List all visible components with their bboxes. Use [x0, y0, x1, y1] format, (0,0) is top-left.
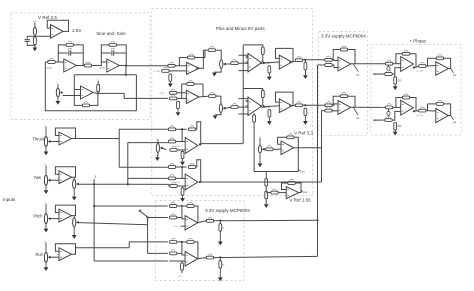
wire — [428, 103, 437, 105]
section box V Ref 2.5 and sine — [11, 13, 150, 120]
trimmer phase1 input — [387, 67, 390, 71]
wire R2 to U2 — [55, 61, 64, 63]
wire to node — [177, 205, 187, 207]
resistor R13 row A comp input — [231, 60, 238, 65]
resistor R5 int2 feedback — [109, 41, 116, 46]
op-amp U1 reference buffer — [51, 25, 64, 39]
node phase1 out — [451, 69, 457, 78]
wire thrust to mixer D — [119, 166, 168, 168]
wire R23 to comparator — [238, 106, 248, 108]
trimmer phase2 input — [387, 111, 390, 115]
resistor R52 vref165 feedback — [288, 179, 295, 184]
potentiometer RV yaw input — [44, 163, 50, 185]
op-amp U4 inverter — [81, 86, 94, 99]
resistor R33 supply2 input lower — [325, 107, 332, 112]
wire R41 to U15 — [393, 106, 401, 108]
wire to node — [176, 128, 187, 130]
svg-text:LM324: LM324 — [46, 68, 53, 70]
potentiometer RV4 row B level — [219, 104, 225, 113]
section box 3.3V supply MCP6004 lower — [155, 201, 244, 281]
wire mixer2 out run — [214, 256, 318, 257]
wire U25 output — [198, 221, 207, 223]
wire mixer2 feedback right — [194, 242, 198, 259]
wire vref33 to divider — [266, 171, 298, 173]
resistor R32 supply2 input upper — [325, 102, 332, 107]
wire thrust output — [72, 138, 120, 140]
svg-text:out: out — [453, 121, 457, 124]
svg-text:out: out — [301, 170, 305, 173]
pin circles U9 — [246, 100, 248, 107]
wire comp A pin 3 — [239, 70, 249, 72]
resistor R27 row B divider — [304, 108, 309, 115]
wire trimmer to R38 — [388, 71, 390, 73]
wire pitch wiper run — [79, 223, 148, 225]
potentiometer RV roll input — [44, 240, 50, 262]
wire res1 to trimmer — [388, 109, 390, 111]
wire U2 output — [76, 65, 84, 67]
wire to U23 plus — [177, 149, 185, 151]
svg-text:V Ref 1.65: V Ref 1.65 — [289, 198, 311, 203]
resistor R14 comp A feedback — [261, 47, 267, 54]
svg-text:V Ref 2.5: V Ref 2.5 — [38, 15, 57, 20]
wire RV4 wiper out — [226, 106, 231, 109]
wire -sine out — [98, 92, 124, 94]
wire — [428, 57, 437, 59]
op-amp U8 row B amp — [186, 90, 199, 103]
wire ref to U15 plus — [392, 111, 401, 120]
resistor R22 row B output — [209, 92, 216, 97]
resistor R39 phase1 ground leg — [394, 77, 402, 84]
wire to mixer2 ref input — [94, 260, 168, 262]
resistor R65 mixer1 in2 — [170, 214, 177, 219]
junction yaw branch junction — [127, 183, 129, 185]
resistor R9 row A feedback — [188, 54, 195, 59]
wire int2 feedback right — [117, 45, 127, 66]
wire supply2 feedback left — [333, 96, 340, 105]
resistor R19 row B input — [170, 95, 177, 100]
wire phase1 feedback left — [396, 54, 402, 64]
switch SW1 — [139, 210, 149, 219]
wire pot wiper to buffer — [51, 256, 59, 258]
resistor R37 phase1 coupling — [419, 62, 426, 67]
wire comp A pin 1 — [239, 54, 249, 56]
wire to RV3 — [216, 50, 222, 60]
wire roll to mixer2 in1 — [129, 241, 168, 243]
resistor R41 phase2 input — [385, 104, 392, 109]
junction mixer C node — [181, 128, 183, 130]
resistor R21 row B to ground — [177, 101, 182, 108]
resistor R47 vref33 input — [266, 146, 273, 151]
op-amp U25 mixer 1 — [185, 216, 198, 230]
op-amp U13 phase1 amp — [401, 57, 414, 72]
wire column 2 — [321, 111, 323, 182]
junction mixer D node — [181, 166, 183, 168]
resistor R1 divider lower — [34, 37, 39, 44]
wire stub — [394, 74, 396, 77]
resistor R35 phase1 input — [385, 60, 392, 65]
wire to ground — [34, 44, 36, 47]
wire to U11 plus — [332, 65, 338, 68]
wire vref33 feedback left — [278, 137, 287, 144]
junction rail junction — [125, 74, 127, 76]
wire yaw into in3 — [168, 184, 171, 186]
resistor R67 mixer1 load — [219, 224, 225, 231]
wire R14 down — [262, 54, 264, 63]
resistor R36 phase1 feedback — [402, 50, 409, 55]
wire stub — [177, 97, 179, 99]
wire supply2 feedback right — [348, 96, 355, 107]
wire R8 to U5 — [175, 65, 186, 67]
ground GND thrust pot — [44, 147, 49, 156]
resistor R4 coupling — [84, 62, 91, 67]
wire tap top — [253, 113, 255, 115]
wire to U25 minus — [182, 218, 185, 220]
wire tap down — [253, 122, 255, 171]
svg-text:(+1.7V): (+1.7V) — [417, 115, 424, 117]
wire mixer C output — [200, 144, 244, 146]
wire thrust split vertical — [118, 129, 120, 167]
wire int1 feedback right — [74, 45, 84, 66]
wire phase2 feedback right — [410, 98, 416, 112]
wire ref label lead — [373, 119, 385, 121]
wire R6 down — [97, 92, 99, 94]
wire stub — [219, 221, 221, 224]
svg-text:Plus and Minus 5V parts: Plus and Minus 5V parts — [216, 26, 266, 31]
resistor R55 mixer C in2 — [168, 138, 175, 143]
wire mixer1 feedback right — [194, 206, 198, 223]
wire stub — [182, 150, 184, 151]
resistor R31 supply1 feedback — [340, 46, 347, 51]
node vref165 out — [301, 190, 307, 194]
svg-text:LM324: LM324 — [99, 68, 106, 70]
wire R51 to U18 — [278, 192, 286, 194]
junction inverter out junction — [97, 92, 99, 94]
ground GND20 — [218, 231, 223, 245]
wire U4 input left vertical — [73, 75, 75, 106]
ground GND9 — [267, 117, 272, 125]
wire cap top lead — [26, 36, 28, 38]
wire RV8 wiper — [163, 148, 167, 150]
wire R18 to U8 — [177, 92, 186, 94]
wire comp B output — [264, 106, 269, 109]
wire vref33 to column — [298, 147, 321, 149]
wire into R2 — [45, 61, 48, 63]
wire yaw to mixer C in2 — [128, 142, 168, 144]
resistor R17 row A divider — [304, 63, 309, 70]
wire supply1 feedback left — [333, 50, 340, 60]
junction mixer1 node — [181, 205, 183, 207]
wire node down — [181, 206, 183, 219]
wire buffer feedback — [55, 128, 75, 139]
svg-text:+1.7v: +1.7v — [173, 226, 178, 228]
wire phase1 op2 feedback right — [444, 58, 451, 68]
junction comp B output junction — [263, 106, 265, 108]
op-amp U2 integrator 1 — [64, 59, 77, 72]
op-amp U24 mixer D — [185, 174, 198, 190]
wire phase2 op2 feedback right — [444, 104, 451, 116]
junction mixer2 out junction — [219, 256, 221, 258]
ground GND6 — [303, 70, 308, 79]
wire U15 output — [414, 110, 419, 113]
potentiometer RV thrust input — [44, 125, 50, 147]
ground GND8 — [213, 115, 218, 119]
wire comparator input bus — [242, 45, 244, 143]
resistor R53 mixer C in1 — [168, 126, 175, 131]
ground GND5 — [267, 73, 272, 80]
resistor R43 phase2 coupling — [419, 107, 426, 112]
resistor R54 mixer C feedback — [188, 126, 195, 131]
wire int1 feedback left — [58, 45, 66, 62]
op-amp U U20 buffer — [59, 171, 72, 184]
potentiometer RV1 divider upper — [33, 27, 36, 35]
resistor R49 vref165 upper — [265, 179, 270, 186]
op-amp U12 supply amp 2 — [338, 100, 351, 114]
wire comp B positive feedback — [243, 89, 263, 91]
resistor R40 phase1 op2 feedback — [436, 55, 443, 60]
wire vref33 down — [297, 148, 299, 172]
op-amp U15 phase2 amp — [401, 100, 414, 115]
wire to U26 minus — [182, 254, 185, 256]
wire R47 to U17 — [273, 148, 281, 150]
potentiometer RV8 mixer C trim — [156, 137, 162, 152]
wire to U12 minus — [332, 104, 338, 105]
svg-text:1: 1 — [95, 175, 97, 179]
ground GND2 — [56, 97, 61, 105]
wire U4 inverting input — [74, 89, 80, 91]
op-amp U23 mixer C — [185, 138, 198, 154]
ground GND14 — [264, 204, 269, 208]
resistor R69 mixer2 feedback — [187, 238, 194, 243]
junction mixer2 node — [181, 241, 183, 243]
op-amp U11 supply amp 1 — [338, 57, 351, 71]
junction phase2 junction — [413, 110, 415, 112]
wire to RV4 — [216, 96, 221, 104]
wire yaw pot top — [73, 177, 75, 179]
resistor R63 mixer1 in1 — [170, 202, 177, 207]
resistor R8 row A input — [168, 62, 175, 67]
wire switch to mixer1 — [148, 217, 168, 219]
wire stub — [394, 119, 396, 122]
wire stub — [169, 70, 171, 73]
wire vref33 feedback right — [294, 137, 298, 148]
resistor R50 vref165 lower — [265, 191, 270, 198]
resistor R30 supply1 input lower — [325, 61, 332, 66]
svg-text:+ Phase: + Phase — [409, 38, 426, 43]
wire buffer feedback — [55, 244, 75, 255]
resistor R11 row A to ground — [169, 74, 174, 81]
op-amp U5 row A amp — [187, 62, 200, 74]
junction mixer1 in1 junction — [93, 205, 95, 207]
potentiometer RV6 yaw gain — [73, 179, 79, 188]
wire to U3 input — [92, 62, 107, 66]
wire to C2 — [58, 52, 68, 54]
wire -sine to row B — [124, 93, 168, 98]
svg-text:+1.7v: +1.7v — [178, 276, 183, 278]
wire R43 to U16 — [426, 110, 436, 112]
wire RV8 ground — [156, 153, 159, 158]
wire buffer B output — [289, 104, 295, 106]
resistor R46 phase2 op2 feedback — [436, 100, 443, 105]
svg-text:(-1.7V): (-1.7V) — [154, 71, 161, 73]
inverter bubble U6 output bubble — [262, 62, 264, 64]
section box + Phase — [371, 45, 461, 135]
junction row B output junction — [304, 104, 306, 106]
node supply2 out — [353, 108, 359, 121]
junction mixer C out junction — [199, 143, 201, 145]
op-amp U U22 buffer — [59, 248, 72, 261]
wire comp B pin 3 — [239, 113, 249, 115]
wire res1 to trimmer — [388, 65, 390, 66]
ground GND roll pot — [44, 262, 49, 271]
wire U1 feedback loop — [47, 20, 68, 31]
wire roll up — [128, 242, 130, 248]
wire RV2 wiper to U4 — [63, 95, 81, 97]
resistor R56 mixer C in3 — [170, 146, 177, 151]
wire comp B to buffer — [264, 106, 279, 107]
wire node down — [181, 167, 183, 178]
wire sine output to row A — [126, 65, 168, 67]
ground GND4 — [212, 73, 217, 77]
ground GND yaw pot — [44, 185, 49, 194]
svg-text:out: out — [356, 74, 360, 77]
wire R72 bottom lead — [181, 270, 183, 273]
wire buffer feedback — [55, 205, 75, 216]
wire row A to supply — [303, 59, 325, 61]
junction mixer1 out junction — [219, 219, 221, 221]
wire pitch pot top — [73, 216, 75, 218]
wire phase2 feedback left — [396, 98, 402, 108]
wire to U1 inverting input — [27, 35, 50, 37]
wire rail right vertical — [135, 75, 137, 111]
wire to R51 — [266, 192, 271, 194]
wire RV3 to ground — [214, 68, 221, 72]
wire R37 to U14 — [426, 65, 436, 68]
resistor R70 mixer2 in2 — [170, 250, 177, 255]
wire bottom feedback right — [90, 93, 98, 105]
wire R72 top lead — [181, 261, 183, 263]
junction mixer D out junction — [199, 181, 201, 183]
resistor R3 int1 feedback — [66, 41, 73, 46]
wire phase2 op2 feedback left — [427, 104, 429, 111]
wire R35 to U13 — [393, 63, 401, 65]
ground GND16 pitch — [72, 227, 77, 239]
wire to U26 plus — [169, 260, 185, 262]
wire cap bottom lead — [27, 42, 35, 45]
wire pot wiper to buffer — [51, 179, 59, 181]
wire stub — [304, 60, 306, 63]
wire U8 output — [199, 95, 209, 98]
wire to U24 plus — [177, 185, 185, 187]
op-amp U16 phase2 out amp — [436, 108, 449, 122]
wire phase1 feedback right — [410, 54, 416, 68]
junction row A output junction — [304, 59, 306, 61]
op-amp U3 integrator 2 — [107, 59, 120, 72]
wire row A feedback right — [195, 50, 205, 57]
resistor R38 phase1 ref — [385, 70, 392, 75]
ground GND19 — [180, 195, 185, 202]
wire supply1 output to phase — [351, 63, 386, 65]
wire comp A to buffer — [264, 61, 279, 64]
wire supply2 output to phase — [351, 106, 386, 108]
capacitor C1 reference filter — [25, 40, 30, 42]
wire oscillator feedback bottom — [45, 62, 136, 111]
wire yaw junction down — [93, 179, 95, 261]
svg-text:3.3V supply MCP6004: 3.3V supply MCP6004 — [321, 34, 366, 39]
wire C2 right — [71, 52, 84, 54]
wire R19 to U8 — [177, 97, 186, 99]
ground GND10 — [303, 116, 308, 125]
wire vref165 feedback left — [282, 183, 288, 190]
wire pot wiper to buffer — [51, 141, 59, 143]
wire top rail — [74, 74, 136, 76]
junction comp A output junction — [263, 62, 265, 64]
wire phase1 op2 feedback left — [427, 58, 429, 65]
wire U17 output — [294, 147, 299, 149]
resistor R61 mixer D in3 — [170, 182, 177, 187]
svg-text:Sine and -Sine: Sine and -Sine — [96, 31, 126, 36]
op-amp U9 comparator B — [248, 97, 262, 116]
wire to U11 minus — [332, 59, 338, 62]
junction col junction c — [316, 219, 318, 221]
wire trimmer to R44 — [388, 115, 390, 118]
resistor R29 supply1 input upper — [325, 56, 332, 61]
wire yaw wiper run — [79, 183, 169, 185]
wire row B to supply — [303, 104, 325, 106]
resistor R28 comp B tap — [253, 115, 258, 122]
resistor R15 comp A load — [268, 66, 273, 73]
wire divider mid — [265, 186, 267, 191]
wire R13 to comparator — [238, 62, 248, 64]
svg-text:Yaw: Yaw — [33, 175, 41, 180]
resistor R57 mixer C ground leg — [181, 151, 186, 158]
resistor R68 mixer2 in1 — [170, 238, 177, 243]
section box 3.3V supply MCP6004 — [319, 31, 368, 135]
junction phase1 junction — [413, 67, 415, 69]
svg-text:Thrust: Thrust — [32, 137, 44, 142]
wire comp B pin 1 — [239, 98, 249, 100]
wire int2 feedback left — [101, 45, 109, 62]
resistor R60 mixer D in2 — [168, 175, 175, 180]
node vref33 out — [298, 169, 305, 173]
wire row B feedback right — [194, 84, 203, 97]
wire to R12 — [203, 49, 207, 51]
pin circles U6 — [246, 56, 248, 63]
wire R70 to node leg — [177, 252, 182, 254]
wire mixer D feedback right — [196, 160, 201, 182]
ground GND21 — [218, 268, 223, 281]
resistor R7 inverter feedback — [82, 102, 89, 107]
op-amp U18 vref165 amp — [286, 187, 299, 199]
wire stub — [219, 258, 221, 261]
potentiometer RV pitch input — [44, 202, 50, 224]
wire U4 output — [93, 92, 98, 95]
svg-text:3.3V supply MCP6004: 3.3V supply MCP6004 — [205, 208, 250, 213]
wire mixer D output — [200, 181, 322, 183]
wire row B feedback left — [182, 84, 187, 98]
svg-text:-1.7V: -1.7V — [159, 93, 165, 95]
svg-text:out: out — [356, 117, 360, 120]
resistor R23 row B comp input — [231, 103, 238, 108]
svg-text:Pitch: Pitch — [33, 214, 43, 219]
resistor R26 buffer B output — [295, 102, 302, 107]
ground GND18 — [180, 159, 185, 166]
op-amp U7 buffer A — [279, 55, 292, 69]
wire to U24 minus — [176, 177, 186, 179]
ground GND17 — [155, 157, 160, 161]
wire U14 output — [447, 68, 451, 70]
wire supply1 feedback right — [348, 50, 355, 64]
wire U16 output — [447, 115, 451, 117]
